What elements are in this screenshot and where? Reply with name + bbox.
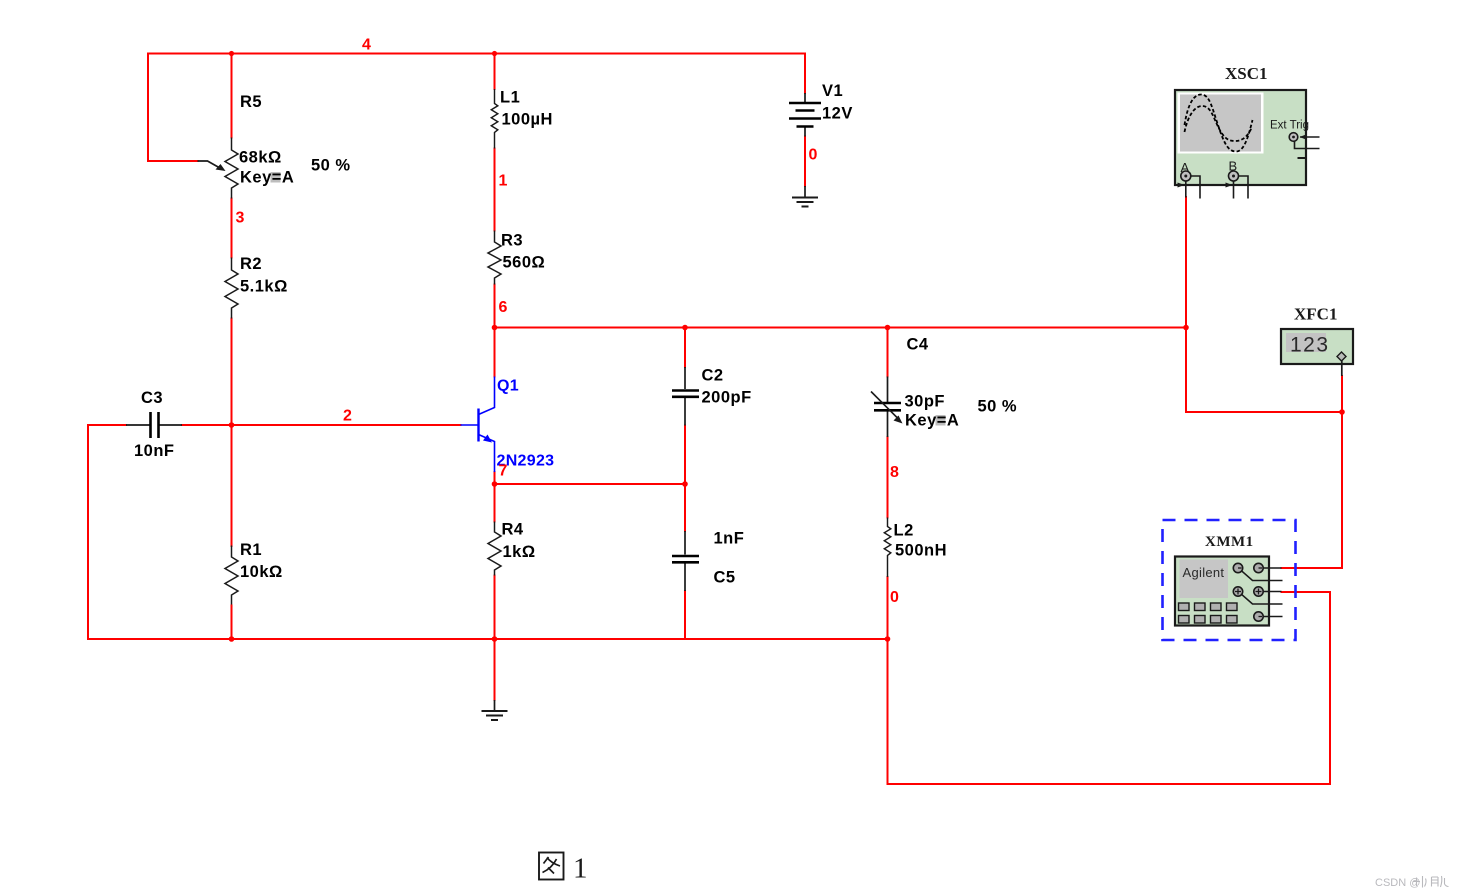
ground below R4 xyxy=(482,700,508,720)
resistor R1 body xyxy=(225,546,238,605)
junction net4/L1 xyxy=(492,51,497,56)
svg-text:C5: C5 xyxy=(714,569,736,587)
resistor R4 body xyxy=(488,522,501,576)
junction node6 / scope A wire xyxy=(1183,325,1189,331)
junction node7 / C2 C5 xyxy=(682,481,688,487)
svg-text:R2: R2 xyxy=(240,255,262,273)
frequency counter XFC1 body xyxy=(1281,329,1353,364)
junction node6 / C2 xyxy=(682,325,688,331)
battery V1 plates xyxy=(789,103,821,127)
svg-text:560Ω: 560Ω xyxy=(503,254,546,272)
svg-text:Agilent: Agilent xyxy=(1183,565,1225,580)
svg-text:XSC1: XSC1 xyxy=(1225,64,1268,83)
variable capacitor C4 leads xyxy=(887,377,889,438)
inductor L1 body xyxy=(491,89,498,149)
wire Q1 collector red xyxy=(494,328,496,377)
junction XFC wire xyxy=(1339,409,1345,415)
junction node6 / Q1 collector xyxy=(492,325,498,331)
wire node 7 horizontal xyxy=(495,483,686,485)
svg-text:1: 1 xyxy=(573,853,588,885)
wire bottom right loop to XMM1 xyxy=(888,592,1331,784)
wire C3 left lead red xyxy=(88,424,126,426)
oscilloscope XSC1 channel B terminal xyxy=(1226,171,1249,199)
wire rail to ground below Q1 xyxy=(494,639,496,700)
wire node 6 horizontal xyxy=(495,327,1187,329)
wire C4 top lead red xyxy=(887,328,889,377)
svg-text:4: 4 xyxy=(362,37,371,54)
svg-text:8: 8 xyxy=(890,464,899,481)
capacitor C2 plates xyxy=(672,391,699,397)
junction node2/R2 column xyxy=(229,422,235,428)
capacitor C3 leads xyxy=(126,424,182,426)
svg-text:6: 6 xyxy=(499,299,508,316)
svg-text:5.1kΩ: 5.1kΩ xyxy=(240,278,288,296)
wire L2 bottom node 0 to rail xyxy=(887,577,889,639)
wire node 1 (L1 to R3) xyxy=(494,149,496,231)
svg-text:C3: C3 xyxy=(141,389,163,407)
svg-text:2: 2 xyxy=(343,408,352,425)
svg-text:0: 0 xyxy=(809,147,818,164)
wire R3 bottom node 6 xyxy=(494,285,496,328)
svg-text:200pF: 200pF xyxy=(702,389,752,407)
label R5 key xyxy=(240,169,294,187)
wire Q1 emitter red node 7 xyxy=(494,472,496,484)
oscilloscope XSC1 channel A terminal xyxy=(1178,171,1201,199)
svg-text:R4: R4 xyxy=(502,521,524,539)
wire bottom rail xyxy=(88,638,888,640)
capacitor C5 plates xyxy=(672,556,699,562)
svg-text:7: 7 xyxy=(499,463,508,480)
caption figure 1 xyxy=(539,853,564,880)
svg-text:Key=A: Key=A xyxy=(240,169,294,187)
wire R2 bottom to R1 top (through node 2) xyxy=(231,319,233,547)
svg-text:L2: L2 xyxy=(894,522,914,540)
wire C2 top lead red xyxy=(684,328,686,368)
capacitor C5 leads xyxy=(684,531,686,591)
capacitor C3 plates xyxy=(151,412,159,438)
wire V1 bottom node 0 to ground xyxy=(804,137,806,187)
svg-text:Ext Trig: Ext Trig xyxy=(1270,120,1309,132)
watermark xyxy=(1375,876,1449,889)
variable capacitor C4 arrow xyxy=(871,392,903,424)
svg-text:CSDN @: CSDN @ xyxy=(1375,877,1420,889)
wire V1 top lead xyxy=(804,54,806,94)
svg-text:68kΩ: 68kΩ xyxy=(239,149,282,167)
svg-text:L1: L1 xyxy=(500,89,520,107)
wire node 8 (C4 to L2) xyxy=(887,437,889,518)
oscilloscope XSC1 body xyxy=(1175,90,1306,185)
svg-text:R5: R5 xyxy=(240,93,262,111)
wire C5 bottom red to rail xyxy=(684,591,686,639)
wire net4 top horizontal xyxy=(148,53,805,55)
svg-text:XFC1: XFC1 xyxy=(1294,305,1337,324)
wire node 2 horizontal to Q1 base xyxy=(232,424,461,426)
potentiometer R5 body xyxy=(225,138,238,199)
svg-text:10kΩ: 10kΩ xyxy=(240,563,283,581)
inductor L2 body xyxy=(884,518,891,578)
svg-text:30pF: 30pF xyxy=(905,393,946,411)
svg-text:R1: R1 xyxy=(240,541,262,559)
junction bottom rail / L2 xyxy=(885,636,891,642)
svg-text:123: 123 xyxy=(1290,334,1330,357)
multimeter XMM1 probe stubs xyxy=(1242,568,1283,617)
junction node7 / Q1 emitter xyxy=(492,481,498,487)
wire C5 top red xyxy=(684,484,686,531)
multimeter XMM1 buttons xyxy=(1179,603,1238,623)
svg-text:V1: V1 xyxy=(822,82,843,100)
resistor R3 body xyxy=(488,231,501,285)
transistor Q1 emitter arrow xyxy=(483,435,492,443)
wire R5 wiper loop: left vertical and horizontal xyxy=(148,54,198,162)
svg-text:Q1: Q1 xyxy=(497,378,519,395)
multimeter XMM1 dashed selection box xyxy=(1163,520,1296,640)
svg-text:XMM1: XMM1 xyxy=(1205,534,1254,550)
wire R4 bottom to rail xyxy=(494,576,496,640)
label C4 key xyxy=(905,412,959,430)
frequency counter XFC1 terminal diamond xyxy=(1337,352,1346,376)
wire C3 right lead red xyxy=(182,424,232,426)
wire scope A down to node 6 and to XFC junction xyxy=(1186,197,1342,412)
wire XFC1 down to XMM1 top terminal xyxy=(1282,376,1343,568)
svg-text:100µH: 100µH xyxy=(502,111,553,129)
oscilloscope XSC1 Ext Trig terminal xyxy=(1289,133,1319,158)
svg-text:10nF: 10nF xyxy=(134,442,175,460)
svg-text:3: 3 xyxy=(236,210,245,227)
wire L1 top lead from net4 xyxy=(494,54,496,90)
battery V1 leads xyxy=(804,93,806,137)
junction bottom rail / R1 xyxy=(229,636,235,642)
multimeter XMM1 body xyxy=(1175,557,1269,626)
junction node6 / C4 xyxy=(885,325,891,331)
wire R4 top lead xyxy=(494,484,496,522)
junction net4/R5 xyxy=(229,51,234,56)
wire C2 bottom red to node 7 xyxy=(684,426,686,485)
svg-text:R3: R3 xyxy=(501,232,523,250)
svg-text:C2: C2 xyxy=(702,367,724,385)
multimeter XMM1 terminals xyxy=(1233,563,1263,621)
svg-text:0: 0 xyxy=(890,589,899,606)
svg-text:C4: C4 xyxy=(907,336,929,354)
svg-text:50 %: 50 % xyxy=(311,157,351,175)
svg-text:1: 1 xyxy=(499,173,508,190)
wire R5 top lead from net4 xyxy=(231,54,233,138)
wire node 3 (R5 to R2) xyxy=(231,199,233,258)
wire R1 bottom lead to rail xyxy=(231,605,233,640)
svg-text:50 %: 50 % xyxy=(978,398,1018,416)
transistor Q1 2N2923 xyxy=(461,377,495,473)
svg-text:1nF: 1nF xyxy=(714,530,745,548)
svg-text:1kΩ: 1kΩ xyxy=(503,543,536,561)
svg-text:500nH: 500nH xyxy=(895,542,947,560)
svg-text:Key=A: Key=A xyxy=(905,412,959,430)
ground below V1 xyxy=(792,186,818,207)
potentiometer R5 wiper arrow xyxy=(198,161,226,171)
capacitor C2 leads xyxy=(684,367,686,426)
resistor R2 body xyxy=(225,258,238,319)
wire left vertical C3 to bottom rail xyxy=(87,425,89,639)
junction bottom rail / R4 ground xyxy=(492,636,498,642)
svg-text:12V: 12V xyxy=(822,105,853,123)
variable capacitor C4 plates xyxy=(874,403,901,410)
oscilloscope XSC1 sine waves xyxy=(1185,95,1253,152)
